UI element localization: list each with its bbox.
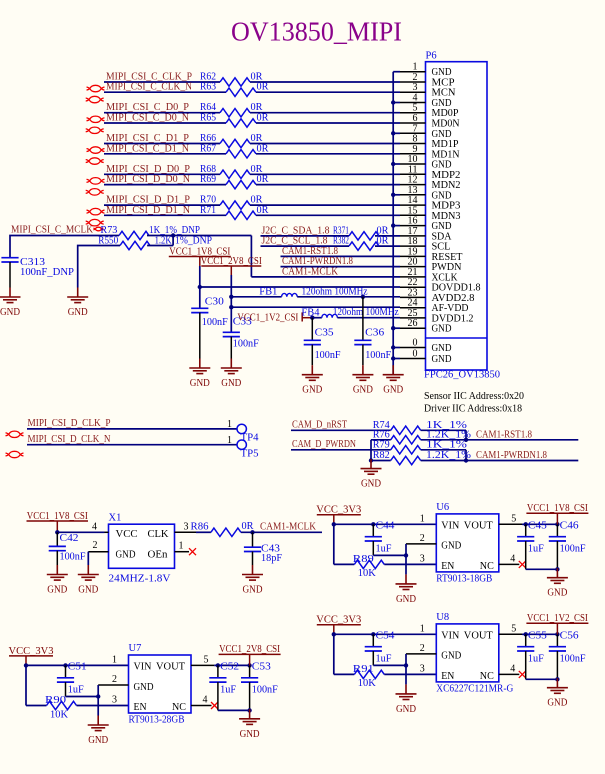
P6 pin 8 (MD1P) <box>400 134 459 151</box>
svg-text:100nF: 100nF <box>252 684 278 695</box>
P6 pin 6 (MD0N) <box>400 113 460 130</box>
wire / net label J2C_C_SDA_1.8 <box>261 225 401 236</box>
annotation IIC addresses <box>424 391 524 415</box>
capacitor C30 100nF <box>191 297 228 359</box>
U8 pin 5 VOUT <box>499 623 558 634</box>
svg-text:1K_1%: 1K_1% <box>426 439 467 450</box>
svg-text:CAM1-MCLK: CAM1-MCLK <box>282 266 338 277</box>
svg-text:TP5: TP5 <box>241 449 259 460</box>
P6 pin 14 (MDP3) <box>400 195 461 212</box>
svg-text:100nF_DNP: 100nF_DNP <box>20 267 74 278</box>
svg-text:GND: GND <box>134 682 154 693</box>
ground under C313 <box>0 288 21 319</box>
svg-text:GND: GND <box>432 343 452 354</box>
resistor R76 1.2K 1% <box>373 429 472 444</box>
ground under X1 pin2 <box>78 565 99 596</box>
U8 pin 3 EN <box>420 663 425 674</box>
capacitor C53 100nF <box>241 662 278 713</box>
svg-text:C35: C35 <box>315 328 334 339</box>
connector P6 body <box>426 51 488 371</box>
capacitor C313 100nF_DNP <box>1 257 74 288</box>
P6 pin 16 (GND) <box>400 216 452 233</box>
P6 pin 0 (GND) <box>400 338 452 355</box>
wire VCC1_1V8_CSI rail to DOVDD1.8 pin 22 <box>198 266 400 308</box>
power port VCC1_1V2_CSI (U8) <box>526 613 588 634</box>
svg-text:100nF: 100nF <box>560 543 586 554</box>
regulator U6 RT9013-18GB <box>436 502 499 585</box>
X1 pin 2 to ground <box>88 540 108 565</box>
power port VCC1_2V8_CSI (U7) <box>219 644 281 665</box>
wire / net label MIPI_CSI_D_D0_P <box>104 164 400 175</box>
P6 pin 9 (MD1N) <box>400 144 460 161</box>
resistor R550 1.2K 1% DNP <box>98 236 212 250</box>
svg-text:C52: C52 <box>220 662 239 673</box>
P6 pin 25 (DVDD1.2) <box>400 308 474 325</box>
P6 pin 4 (GND) <box>400 93 452 110</box>
svg-text:RT9013-18GB: RT9013-18GB <box>436 573 492 584</box>
svg-text:1uF: 1uF <box>528 543 544 554</box>
svg-text:3: 3 <box>420 553 425 564</box>
wire / net label MIPI_CSI_D_D0_N <box>104 174 400 185</box>
svg-text:GND: GND <box>432 324 452 335</box>
svg-text:120ohm 100MHz: 120ohm 100MHz <box>302 286 368 297</box>
svg-text:U7: U7 <box>129 643 142 654</box>
wire AF-VDD (pin 24) from 2V8 rail <box>231 306 400 308</box>
capacitor C36 100nF <box>354 297 391 365</box>
resistor R66 0R <box>200 133 263 148</box>
power port VCC1_1V8_CSI (X1) <box>27 511 89 532</box>
wire / net label MIPI_CSI_C_D1_N <box>104 143 400 154</box>
U6 pin 1 VIN <box>420 513 425 524</box>
svg-text:NC: NC <box>172 702 186 713</box>
capacitor C46 100nF <box>549 521 586 572</box>
resistor R62 0R <box>200 72 263 87</box>
svg-text:EN: EN <box>134 702 147 713</box>
svg-text:1uF: 1uF <box>528 653 544 664</box>
X1 pin 1 OEn no-connect <box>175 541 190 552</box>
svg-text:0R: 0R <box>257 113 269 124</box>
svg-text:VCC: VCC <box>116 529 138 540</box>
svg-text:5: 5 <box>204 654 209 665</box>
resistor R86 0R <box>191 521 254 537</box>
ground under R82 <box>361 459 382 490</box>
svg-text:NC: NC <box>480 561 494 572</box>
capacitor C52 1uF <box>209 662 249 711</box>
svg-text:2: 2 <box>420 643 425 654</box>
svg-text:1: 1 <box>420 623 425 634</box>
no-ERC cross at U7 pin 4 <box>211 702 218 709</box>
U6 pin 4 NC <box>499 553 520 564</box>
svg-text:MIPI_CSI_C_D0_N: MIPI_CSI_C_D0_N <box>106 113 189 124</box>
svg-text:18pF: 18pF <box>261 553 282 564</box>
svg-text:100nF: 100nF <box>315 350 341 361</box>
resistor R71 0R <box>200 205 269 220</box>
svg-text:GND: GND <box>78 585 98 596</box>
svg-text:0R: 0R <box>257 82 269 93</box>
capacitor C56 100nF <box>549 631 586 682</box>
P6 pin 24 (AF-VDD) <box>400 298 469 315</box>
wire / net label CAM1-RST1.8 (to pin 19) <box>281 246 401 257</box>
svg-text:CLK: CLK <box>148 529 169 540</box>
svg-text:120ohm 100MHz: 120ohm 100MHz <box>333 307 399 318</box>
svg-text:100nF: 100nF <box>60 552 86 563</box>
resistor R79 1K 1% <box>373 439 468 454</box>
P6 pin 18 (SCL) <box>400 236 451 253</box>
svg-text:GND: GND <box>221 378 241 389</box>
differential pair symbol MIPI_CSI_C_D1 <box>86 147 105 165</box>
wire pulldown tie R76/R82 <box>369 440 391 463</box>
wire VCC_3V3 to U8 VIN <box>332 632 437 674</box>
svg-text:2: 2 <box>93 540 98 551</box>
wire / net label MIPI_CSI_C_D0_N <box>104 113 400 124</box>
svg-text:VCC1_1V2_CSI: VCC1_1V2_CSI <box>527 613 588 624</box>
svg-text:P6: P6 <box>426 51 437 62</box>
connector P6 part name FPC26_OV13850 <box>424 370 500 381</box>
directive symbol on MCLK <box>93 227 103 231</box>
power port VCC_3V3 (U8) <box>316 615 361 635</box>
svg-text:10K: 10K <box>358 568 376 579</box>
wire / net label MIPI_CSI_C_CLK_P <box>104 72 400 83</box>
P6 pin 2 (MCP) <box>400 72 455 89</box>
power port VCC_3V3 (U6) <box>316 505 361 525</box>
no-ERC cross at X1 pin 1 <box>189 548 196 555</box>
wire / net label MIPI_CSI_D_CLK_P <box>27 418 237 430</box>
wire VCC_3V3 to U6 VIN <box>332 522 437 564</box>
capacitor C45 1uF <box>517 521 557 570</box>
svg-text:4: 4 <box>510 553 515 564</box>
svg-text:GND: GND <box>243 585 263 596</box>
svg-text:MIPI_CSI_D_D0_N: MIPI_CSI_D_D0_N <box>106 174 190 185</box>
wire / net label MIPI_CSI_C_MCLK <box>10 225 119 258</box>
svg-text:24MHZ-1.8V: 24MHZ-1.8V <box>109 574 171 585</box>
capacitor C44 1uF <box>365 521 406 556</box>
ferrite bead FB4 120ohm 100MHz <box>301 307 400 320</box>
power port VCC1_1V8_CSI (U6) <box>526 503 588 524</box>
ground under U8 <box>396 684 417 715</box>
svg-text:MIPI_CSI_C_D1_N: MIPI_CSI_C_D1_N <box>106 143 189 154</box>
power port VCC1_2V8_CSI <box>201 256 262 275</box>
svg-text:GND: GND <box>547 588 567 599</box>
ground under C33 <box>221 359 242 390</box>
wire / net label MIPI_CSI_C_D0_P <box>104 102 400 113</box>
oscillator X1 24MHZ-1.8V <box>109 513 175 585</box>
U8 pin 4 NC <box>499 663 520 674</box>
P6 pin 17 (SDA) <box>400 226 452 243</box>
svg-text:R71: R71 <box>200 205 216 216</box>
svg-text:CAM1-MCLK: CAM1-MCLK <box>260 522 316 533</box>
capacitor C42 100nF <box>49 532 86 565</box>
svg-text:MIPI_CSI_D_CLK_N: MIPI_CSI_D_CLK_N <box>28 434 111 445</box>
svg-text:C55: C55 <box>528 631 547 642</box>
wire R79 out <box>421 450 466 461</box>
resistor R371 0R <box>333 225 389 240</box>
U8 pin 1 VIN <box>420 623 425 634</box>
svg-text:FPC26_OV13850: FPC26_OV13850 <box>424 370 500 381</box>
U7 pin 5 VOUT <box>191 654 250 665</box>
P6 pin 0 (GND) <box>400 349 452 366</box>
resistor R73 1K 1% DNP <box>100 225 200 240</box>
svg-text:GND: GND <box>88 735 108 746</box>
ground under C30 <box>189 359 210 390</box>
svg-text:X1: X1 <box>109 513 122 524</box>
svg-text:XC6227C121MR-G: XC6227C121MR-G <box>436 683 513 694</box>
ground under R550 <box>67 288 88 319</box>
wire / net label MIPI_CSI_C_D1_P <box>104 133 400 144</box>
P6 pin 19 (RESET) <box>400 246 463 263</box>
svg-text:10K: 10K <box>50 709 68 720</box>
wire R550 branch <box>78 236 173 288</box>
svg-text:GND: GND <box>353 385 373 396</box>
svg-text:EN: EN <box>441 671 454 682</box>
capacitor C51 1uF <box>57 662 98 697</box>
svg-text:2: 2 <box>112 674 117 685</box>
resistor R70 0R <box>200 195 263 210</box>
P6 pin 21 (XCLK) <box>400 267 458 284</box>
differential pair symbol D_CLK_N <box>6 451 24 457</box>
svg-text:VCC1_1V8_CSI: VCC1_1V8_CSI <box>527 503 588 514</box>
svg-text:1: 1 <box>227 435 232 446</box>
svg-text:C51: C51 <box>68 662 87 673</box>
svg-text:R65: R65 <box>200 113 216 124</box>
wire VCC_3V3 to U7 VIN <box>24 663 129 705</box>
P6 pin 20 (PWDN) <box>400 257 462 274</box>
svg-text:C30: C30 <box>205 297 224 308</box>
svg-text:1: 1 <box>179 541 184 552</box>
svg-text:GND: GND <box>383 385 403 396</box>
no-ERC cross at U6 pin 4 <box>519 561 526 568</box>
wire / net label MIPI_CSI_D_D1_P <box>104 195 400 206</box>
svg-text:R69: R69 <box>200 174 216 185</box>
svg-text:VIN: VIN <box>134 662 152 673</box>
svg-text:VCC_3V3: VCC_3V3 <box>9 646 54 657</box>
U7 pin 2 GND <box>96 674 129 716</box>
ferrite bead FB1 120ohm 100MHz <box>231 286 400 299</box>
svg-text:26: 26 <box>408 318 418 329</box>
P6 pin 3 (MCN) <box>400 82 456 99</box>
svg-text:R73: R73 <box>100 225 117 236</box>
capacitor C35 100nF <box>304 318 341 366</box>
svg-text:VCC1_2V8_CSI: VCC1_2V8_CSI <box>219 644 280 655</box>
svg-text:100nF: 100nF <box>233 339 259 350</box>
svg-text:VOUT: VOUT <box>156 662 186 673</box>
svg-text:0R: 0R <box>377 236 389 247</box>
svg-text:GND: GND <box>302 385 322 396</box>
svg-text:FB1: FB1 <box>259 286 277 297</box>
U7 pin 3 EN <box>112 695 117 706</box>
svg-text:0R: 0R <box>257 205 269 216</box>
svg-text:R86: R86 <box>191 522 209 533</box>
P6 pin 22 (DOVDD1.8) <box>400 277 481 294</box>
svg-text:MIPI_CSI_D_D1_N: MIPI_CSI_D_D1_N <box>106 205 190 216</box>
wire VCC1_2V8_CSI rail <box>229 275 233 332</box>
differential pair symbol MIPI_CSI_C_CLK <box>86 85 105 103</box>
svg-text:MIPI_CSI_D_CLK_P: MIPI_CSI_D_CLK_P <box>28 418 111 429</box>
svg-text:4: 4 <box>92 522 97 533</box>
svg-text:R67: R67 <box>200 143 216 154</box>
wire / net label MIPI_CSI_C_CLK_N <box>104 82 400 93</box>
resistor R74 1K 1% <box>373 420 468 435</box>
svg-text:3: 3 <box>184 522 189 533</box>
U6 pin 5 VOUT <box>499 513 558 524</box>
svg-text:3: 3 <box>112 695 117 706</box>
svg-text:100nF: 100nF <box>560 653 586 664</box>
svg-text:C42: C42 <box>60 533 79 544</box>
svg-text:MIPI_CSI_C_MCLK: MIPI_CSI_C_MCLK <box>11 225 93 236</box>
ground under U6 <box>396 574 417 605</box>
svg-text:C53: C53 <box>252 662 271 673</box>
ground under C56 <box>547 678 568 709</box>
resistor R82 1.2K 1% <box>373 450 472 465</box>
svg-text:0: 0 <box>413 338 418 349</box>
svg-text:1: 1 <box>420 513 425 524</box>
no-ERC cross at U8 pin 4 <box>519 671 526 678</box>
wire GND rail of P6 <box>393 72 400 375</box>
svg-text:GND: GND <box>441 541 461 552</box>
ground under C42 <box>47 565 68 596</box>
ground under C53 <box>239 709 260 740</box>
capacitor C33 100nF <box>223 317 259 359</box>
svg-text:1%_DNP: 1%_DNP <box>175 236 212 247</box>
resistor R90 10K <box>26 695 129 720</box>
svg-text:GND: GND <box>190 378 210 389</box>
ground symbol below P6 rail <box>383 365 404 396</box>
junction dots on GND rail <box>391 100 395 360</box>
P6 pin 10 (GND) <box>400 154 452 171</box>
svg-text:GND: GND <box>441 651 461 662</box>
wire R74 out <box>421 430 466 440</box>
svg-text:10K: 10K <box>358 678 376 689</box>
capacitor C43 18pF <box>244 532 282 565</box>
svg-text:NC: NC <box>480 671 494 682</box>
differential pair symbol MIPI_CSI_D_D1 <box>86 208 105 226</box>
ground under U7 <box>88 716 109 747</box>
ground under C43 <box>242 565 263 596</box>
svg-text:R79: R79 <box>373 439 390 450</box>
U6 pin 3 EN <box>420 553 425 564</box>
svg-text:RT9013-28GB: RT9013-28GB <box>129 715 185 726</box>
svg-text:TP4: TP4 <box>241 433 260 444</box>
svg-text:4: 4 <box>203 695 208 706</box>
wire / net label CAM_D_nRST <box>291 420 391 431</box>
wire R73 output to XCLK <box>147 233 251 276</box>
X1 pin 3 CLK out <box>175 522 211 533</box>
svg-text:GND: GND <box>116 550 136 561</box>
capacitor C55 1uF <box>517 631 557 680</box>
regulator U7 RT9013-28GB <box>129 643 192 726</box>
svg-text:Driver IIC Address:0x18: Driver IIC Address:0x18 <box>424 404 522 415</box>
resistor R65 0R <box>200 113 269 128</box>
svg-text:C46: C46 <box>560 521 579 532</box>
U7 pin 4 NC <box>191 695 212 706</box>
resistor R63 0R <box>200 82 269 97</box>
svg-text:CAM_D_nRST: CAM_D_nRST <box>292 420 347 431</box>
svg-text:3: 3 <box>420 663 425 674</box>
resistor R91 10K <box>334 664 437 689</box>
P6 pin 13 (GND) <box>400 185 452 202</box>
svg-text:Sensor IIC Address:0x20: Sensor IIC Address:0x20 <box>424 391 524 402</box>
svg-text:5: 5 <box>511 513 516 524</box>
svg-text:U8: U8 <box>436 612 449 623</box>
P6 pin 1 (GND) <box>400 62 452 79</box>
svg-text:0R: 0R <box>257 143 269 154</box>
wire / net label CAM1-PWRDN1.8 <box>421 450 579 463</box>
P6 pin 12 (MDN2) <box>400 175 461 192</box>
svg-text:U6: U6 <box>436 502 449 513</box>
svg-text:R82: R82 <box>373 450 390 461</box>
svg-text:OV13850_MIPI: OV13850_MIPI <box>231 17 402 47</box>
svg-text:100nF: 100nF <box>365 350 391 361</box>
testpoint TP4 <box>237 424 259 443</box>
resistor R64 0R <box>200 102 263 117</box>
svg-text:OEn: OEn <box>148 550 169 561</box>
svg-text:C36: C36 <box>365 328 384 339</box>
ground under C35 <box>302 365 323 396</box>
svg-text:5: 5 <box>511 623 516 634</box>
wire / net label J2C_C_SCL_1.8 <box>261 236 401 247</box>
svg-text:GND: GND <box>432 354 452 365</box>
svg-text:4: 4 <box>510 663 515 674</box>
svg-text:1uF: 1uF <box>220 684 236 695</box>
title OV13850_MIPI <box>231 17 402 47</box>
wire / net label MIPI_CSI_D_CLK_N <box>27 434 237 446</box>
ground under C36 <box>352 365 373 396</box>
ground under C46 <box>547 568 568 599</box>
svg-text:MIPI_CSI_C_CLK_N: MIPI_CSI_C_CLK_N <box>106 82 192 93</box>
svg-text:R63: R63 <box>200 82 216 93</box>
svg-text:GND: GND <box>240 729 260 740</box>
resistor R69 0R <box>200 174 269 189</box>
resistor R68 0R <box>200 164 263 179</box>
wire / net label MIPI_CSI_D_D1_N <box>104 205 400 216</box>
wire / net label CAM1-MCLK (to pin 21) <box>251 266 400 277</box>
svg-text:1uF: 1uF <box>68 684 84 695</box>
svg-text:C56: C56 <box>560 631 579 642</box>
wire / net label CAM1-MCLK (X1 out) <box>241 522 322 535</box>
svg-text:C44: C44 <box>376 521 396 532</box>
resistor R67 0R <box>200 143 269 158</box>
wire VCC to X1 VIN <box>55 530 104 534</box>
capacitor C54 1uF <box>365 631 406 666</box>
svg-text:EN: EN <box>441 561 454 572</box>
svg-text:CAM1-RST1.8: CAM1-RST1.8 <box>476 429 532 440</box>
svg-text:0: 0 <box>413 349 418 360</box>
svg-text:GND: GND <box>396 704 416 715</box>
resistor R382 0R <box>333 236 389 251</box>
U7 pin 1 VIN <box>112 654 117 665</box>
testpoint TP5 <box>237 440 259 460</box>
svg-text:100nF: 100nF <box>202 317 228 328</box>
P6 pin 7 (GND) <box>400 123 452 140</box>
P6 pin 23 (AVDD2.8) <box>400 287 475 304</box>
svg-text:GND: GND <box>47 585 67 596</box>
power port VCC1_1V8_CSI <box>169 247 231 267</box>
wire / net label CAM1-RST1.8 <box>421 429 579 442</box>
wire / net label CAM_D_PWRDN <box>291 439 391 450</box>
svg-text:VIN: VIN <box>441 521 459 532</box>
wire / net label CAM1-PWRDN1.8 (to pin 20) <box>281 256 401 267</box>
svg-text:GND: GND <box>0 307 20 318</box>
P6 pin 26 (GND) <box>400 318 452 335</box>
svg-text:GND: GND <box>547 698 567 709</box>
power port VCC_3V3 (U7) <box>9 646 54 666</box>
svg-text:VOUT: VOUT <box>464 631 494 642</box>
svg-text:C45: C45 <box>528 521 547 532</box>
differential pair symbol D_CLK_P <box>6 431 24 437</box>
P6 pin 11 (MDP2) <box>400 164 461 181</box>
svg-text:0R: 0R <box>257 174 269 185</box>
resistor R89 10K <box>334 554 437 579</box>
svg-text:2: 2 <box>420 533 425 544</box>
